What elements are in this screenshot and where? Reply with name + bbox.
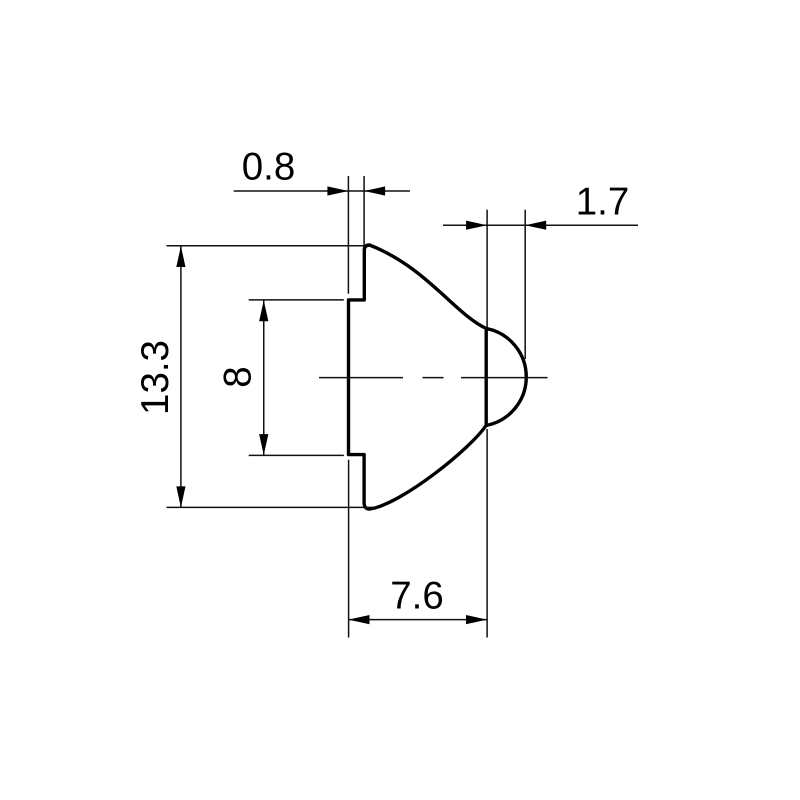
svg-text:7.6: 7.6 [390,575,444,618]
svg-text:0.8: 0.8 [242,146,296,189]
svg-text:8: 8 [216,366,259,387]
svg-text:1.7: 1.7 [576,180,630,223]
svg-text:13.3: 13.3 [134,340,177,415]
